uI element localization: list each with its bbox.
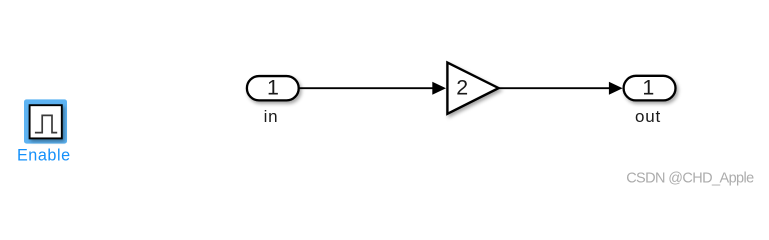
svg-text:CSDN @CHD_Apple: CSDN @CHD_Apple <box>626 171 754 187</box>
svg-text:in: in <box>264 107 279 126</box>
svg-text:2: 2 <box>456 76 468 100</box>
svg-text:1: 1 <box>267 76 279 100</box>
svg-text:Enable: Enable <box>17 147 71 165</box>
svg-text:out: out <box>635 107 661 126</box>
svg-text:1: 1 <box>642 76 654 100</box>
